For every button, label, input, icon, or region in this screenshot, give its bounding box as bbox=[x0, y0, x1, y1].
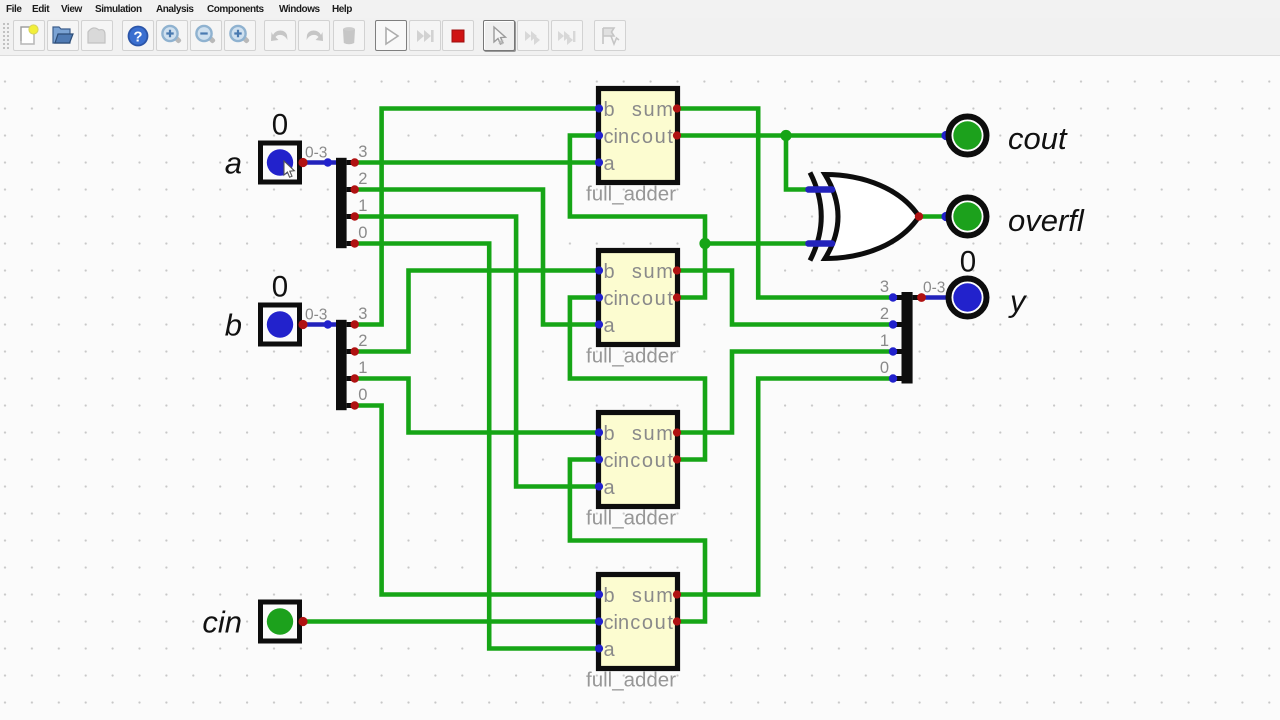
wire a0: splitter-a.0 to FA4.a bbox=[355, 244, 598, 649]
wire bus input a to splitter-a bbox=[303, 160, 337, 165]
wire a3: splitter-a.3 to FA1.a bbox=[355, 160, 598, 165]
wire carry2: FA3.cout to FA2.cin bbox=[570, 298, 705, 460]
wire b0: splitter-b.0 to FA4.b bbox=[355, 406, 598, 595]
XOR gate U5 (overflow) bbox=[809, 173, 924, 261]
svg-text:3: 3 bbox=[880, 278, 889, 296]
svg-text:0: 0 bbox=[272, 109, 288, 142]
svg-text:cin: cin bbox=[604, 612, 630, 634]
full-adder U1 bbox=[595, 89, 681, 183]
wire b1: splitter-b.1 to FA3.b bbox=[355, 379, 598, 433]
svg-text:cin: cin bbox=[604, 126, 630, 148]
pin dot splitter-a input bbox=[324, 158, 332, 166]
junction cout/XOR bbox=[780, 130, 791, 141]
pin dot splitter-b input bbox=[324, 320, 332, 328]
svg-text:cout: cout bbox=[630, 450, 674, 472]
mouse cursor on input a bbox=[284, 161, 294, 177]
output overfl bbox=[949, 198, 987, 236]
wire a1: splitter-a.1 to FA3.a bbox=[355, 217, 598, 487]
wire b2: splitter-b.2 to FA2.b bbox=[355, 271, 598, 352]
svg-text:cin: cin bbox=[202, 605, 242, 640]
svg-text:a: a bbox=[604, 153, 616, 175]
wire cin input to FA4.cin bbox=[303, 619, 598, 624]
wire sum3: FA1.sum to merger.3 bbox=[679, 109, 894, 298]
svg-text:a: a bbox=[604, 315, 616, 337]
wire sum2: FA2.sum to merger.2 bbox=[679, 271, 894, 325]
full-adder U3 bbox=[595, 413, 681, 507]
toolbar bbox=[0, 18, 1280, 56]
svg-text:1: 1 bbox=[880, 332, 889, 350]
svg-text:0: 0 bbox=[880, 359, 889, 377]
svg-text:2: 2 bbox=[358, 170, 367, 188]
svg-text:sum: sum bbox=[632, 99, 675, 121]
svg-text:0-3: 0-3 bbox=[305, 307, 327, 324]
svg-text:cout: cout bbox=[630, 288, 674, 310]
svg-text:full_adder: full_adder bbox=[586, 183, 676, 206]
svg-text:0: 0 bbox=[272, 271, 288, 304]
svg-text:overfl: overfl bbox=[1008, 203, 1085, 238]
svg-text:full_adder: full_adder bbox=[586, 345, 676, 368]
pin dot input b bbox=[298, 320, 307, 329]
splitter SB (b 0-3) bbox=[336, 305, 367, 410]
svg-text:a: a bbox=[604, 639, 616, 661]
wire b3: splitter-b.3 to FA1.b bbox=[355, 109, 598, 325]
svg-text:sum: sum bbox=[632, 585, 675, 607]
pin dot input cin bbox=[298, 617, 307, 626]
wire XOR output to overfl bbox=[919, 214, 946, 219]
svg-text:full_adder: full_adder bbox=[586, 669, 676, 692]
pin dot input a bbox=[298, 158, 307, 167]
svg-text:0: 0 bbox=[358, 224, 367, 242]
wire sum1: FA3.sum to merger.1 bbox=[679, 352, 894, 433]
svg-text:cin: cin bbox=[604, 450, 630, 472]
wire cout net: FA1.cout to cout output bbox=[679, 133, 947, 138]
wire cout branch to XOR.in1 bbox=[786, 136, 816, 190]
wire carry1 branch to XOR.in2 bbox=[705, 241, 816, 246]
wire y bus: merger out to y output bbox=[922, 295, 950, 300]
svg-text:b: b bbox=[604, 99, 615, 121]
svg-text:2: 2 bbox=[880, 305, 889, 323]
pin dot output cout bbox=[941, 131, 950, 140]
svg-text:0-3: 0-3 bbox=[305, 145, 327, 162]
wire carry3: FA4.cout to FA3.cin bbox=[570, 460, 705, 622]
splitter SA (a 0-3) bbox=[336, 143, 367, 248]
svg-text:b: b bbox=[604, 261, 615, 283]
svg-text:cout: cout bbox=[630, 126, 674, 148]
wire a2: splitter-a.2 to FA2.a bbox=[355, 190, 598, 325]
wire bus input b to splitter-b bbox=[303, 322, 337, 327]
svg-text:b: b bbox=[604, 423, 615, 445]
svg-text:cin: cin bbox=[604, 288, 630, 310]
svg-text:0: 0 bbox=[358, 386, 367, 404]
svg-text:y: y bbox=[1008, 284, 1028, 319]
output y bbox=[949, 279, 987, 317]
wire sum0: FA4.sum to merger.0 bbox=[679, 379, 894, 595]
svg-text:sum: sum bbox=[632, 261, 675, 283]
full-adder U2 bbox=[595, 251, 681, 345]
svg-text:cout: cout bbox=[630, 612, 674, 634]
svg-text:1: 1 bbox=[358, 359, 367, 377]
svg-text:b: b bbox=[225, 308, 242, 343]
svg-text:2: 2 bbox=[358, 332, 367, 350]
menu bar bbox=[0, 0, 1280, 18]
input b bbox=[261, 305, 300, 344]
svg-text:b: b bbox=[604, 585, 615, 607]
svg-text:full_adder: full_adder bbox=[586, 507, 676, 530]
output cout bbox=[949, 117, 987, 155]
input a bbox=[261, 143, 300, 182]
svg-text:a: a bbox=[604, 477, 616, 499]
input cin bbox=[261, 602, 300, 641]
svg-text:3: 3 bbox=[358, 305, 367, 323]
junction carry1/XOR bbox=[699, 238, 710, 249]
wire carry1: FA2.cout to FA1.cin and XOR.in2 bbox=[570, 136, 705, 298]
svg-text:sum: sum bbox=[632, 423, 675, 445]
merger SM (y 0-3) bbox=[880, 278, 926, 384]
full-adder U4 bbox=[595, 575, 681, 669]
svg-text:0: 0 bbox=[960, 246, 976, 279]
pin dot output overfl bbox=[941, 212, 950, 221]
svg-text:0-3: 0-3 bbox=[923, 280, 945, 297]
svg-text:1: 1 bbox=[358, 197, 367, 215]
svg-text:3: 3 bbox=[358, 143, 367, 161]
svg-text:cout: cout bbox=[1008, 121, 1068, 156]
svg-text:a: a bbox=[225, 146, 242, 181]
